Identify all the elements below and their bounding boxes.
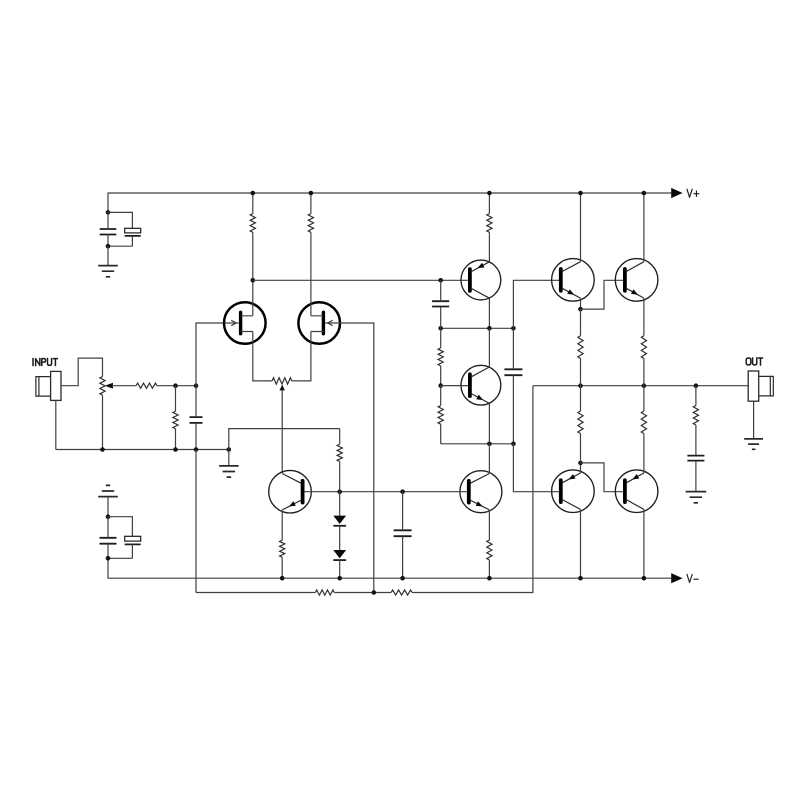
transistor Q2: [461, 365, 501, 405]
resistor R3: [487, 214, 492, 233]
resistor R17: [693, 406, 698, 426]
wire: [488, 298, 490, 328]
node: [400, 576, 405, 581]
wiper arrow: [105, 383, 113, 389]
node: [487, 191, 492, 196]
node: [578, 307, 583, 312]
node: [337, 576, 342, 581]
V- rail: [108, 558, 672, 578]
V+ rail: [108, 193, 672, 212]
label OUT: [746, 358, 762, 365]
ground bus: [56, 449, 229, 451]
wire: [61, 358, 103, 386]
wire node B: [441, 327, 514, 329]
wire: [229, 429, 340, 450]
wire: [107, 246, 109, 265]
node: [194, 447, 199, 452]
wire darlington link: [581, 280, 623, 309]
node: [106, 244, 111, 249]
node: [694, 383, 699, 388]
node: [173, 383, 178, 388]
wire: [228, 450, 230, 466]
node: [173, 447, 178, 452]
wire collector Q7: [580, 510, 582, 579]
resistor R4: [136, 383, 157, 388]
capacitor C4: [125, 536, 141, 541]
diode D2: [333, 550, 346, 558]
node V+ cap junction: [106, 210, 111, 215]
resistor R7: [173, 411, 178, 428]
trimmer wiper arrow: [280, 385, 285, 391]
node: [372, 590, 377, 595]
resistor R15: [578, 411, 583, 434]
node: [251, 191, 256, 196]
capacitor C8: [394, 530, 412, 536]
transistor Q1: [461, 260, 501, 300]
wire node A: [253, 279, 468, 281]
capacitor C9: [687, 456, 704, 461]
capacitor C5: [190, 417, 203, 423]
connector J-IN body: [51, 371, 61, 400]
wire gate J2: [325, 323, 374, 593]
capacitor C2: [125, 228, 141, 233]
node: [337, 489, 342, 494]
node: [487, 576, 492, 581]
capacitor C6: [432, 301, 449, 306]
resistor R1: [250, 214, 255, 233]
resistor R9: [438, 348, 443, 366]
node: [487, 442, 492, 447]
transistor Q5: [552, 259, 595, 302]
capacitor C7: [504, 369, 522, 375]
wire drive lower: [513, 444, 560, 492]
resistor R13: [578, 336, 583, 359]
wire darlington link: [581, 463, 623, 492]
node: [642, 576, 647, 581]
node: [194, 383, 199, 388]
wire source J2: [292, 332, 311, 381]
wire: [488, 444, 490, 474]
node: [400, 489, 405, 494]
wire: [488, 403, 490, 443]
wire: [488, 328, 490, 367]
V+ arrow: [671, 188, 682, 198]
wire node C: [441, 443, 514, 445]
trimmer R6: [272, 378, 292, 384]
transistor Q3: [269, 470, 312, 513]
node: [438, 278, 443, 283]
connector J-OUT plug: [759, 376, 774, 396]
gate arrow J1: [231, 320, 236, 325]
node: [511, 326, 516, 331]
wire: [753, 401, 755, 439]
wire: [412, 386, 533, 593]
node: [106, 514, 111, 519]
wire: [108, 245, 132, 247]
potentiometer VR1: [100, 377, 105, 396]
wire feedback down: [195, 450, 197, 593]
wire: [580, 298, 582, 309]
ground GND1: [98, 266, 118, 277]
node: [578, 383, 583, 388]
wire: [107, 497, 109, 517]
wire base bus: [304, 491, 467, 493]
wire: [108, 557, 132, 559]
node: [309, 191, 314, 196]
wire: [102, 395, 104, 449]
node: [106, 556, 111, 561]
wire feedback: [196, 592, 315, 594]
wire collector Q6: [643, 193, 645, 262]
JFET J2: [298, 302, 340, 344]
ground GND5: [744, 439, 763, 449]
resistor R8: [337, 444, 342, 461]
wire collector Q8: [643, 510, 645, 579]
resistor R10: [438, 406, 443, 425]
connector J-OUT body: [748, 371, 759, 401]
resistor R19: [391, 590, 412, 595]
connector J-IN plug: [36, 377, 51, 397]
JFET J1: [224, 302, 266, 344]
transistor Q4: [460, 471, 502, 513]
node: [251, 278, 256, 283]
resistor R12: [487, 540, 492, 560]
ground GND3: [219, 466, 239, 477]
wire wiper: [281, 390, 283, 473]
capacitor C3: [100, 538, 117, 544]
label INPUT: [33, 359, 57, 366]
node: [280, 576, 285, 581]
node: [438, 326, 443, 331]
resistor R11: [280, 540, 285, 557]
node: [227, 447, 232, 452]
node: [511, 442, 516, 447]
label V-: [687, 575, 698, 583]
capacitor C1: [100, 229, 117, 235]
transistor Q8: [615, 470, 658, 513]
gate arrow J2: [328, 320, 333, 325]
resistor R2: [308, 214, 313, 233]
resistor R18: [315, 590, 334, 595]
wire base Q2: [441, 385, 468, 387]
wire: [112, 385, 136, 387]
node: [578, 191, 583, 196]
wire: [108, 212, 132, 228]
diode D1: [333, 516, 346, 524]
wire collector Q5: [580, 193, 582, 262]
node: [642, 383, 647, 388]
wire: [108, 517, 132, 537]
label V+: [687, 189, 699, 197]
ground GND4: [686, 492, 707, 503]
resistor R14: [641, 336, 646, 359]
wire output node: [533, 385, 748, 387]
node: [487, 326, 492, 331]
node: [438, 383, 443, 388]
wire: [157, 385, 196, 387]
node: [578, 461, 583, 466]
node: [642, 191, 647, 196]
transistor Q7: [552, 470, 595, 513]
wire source J1: [253, 332, 272, 381]
wire: [334, 592, 391, 594]
resistor R16: [641, 411, 646, 434]
transistor Q6: [615, 259, 658, 302]
node: [578, 576, 583, 581]
wire drive upper: [513, 280, 560, 328]
wire gate J1: [196, 323, 239, 386]
wire jack ground stem: [55, 400, 57, 449]
V- arrow: [671, 573, 682, 583]
node: [100, 447, 105, 452]
wire: [580, 463, 582, 473]
ground GND2 (inverted): [98, 485, 118, 496]
